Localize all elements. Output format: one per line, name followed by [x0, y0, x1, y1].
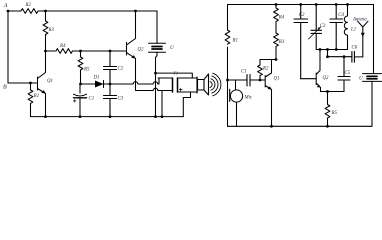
svg-text:R1: R1 [33, 94, 39, 99]
node rail battery [154, 115, 157, 118]
wire left edge A to B [7, 11, 9, 83]
capacitor C1 right [247, 75, 250, 87]
node rail T1 tap [161, 115, 164, 118]
svg-text:Mic: Mic [244, 96, 253, 101]
wire rail corner to speaker bottom [183, 92, 197, 117]
svg-text:R2: R2 [25, 3, 32, 8]
antenna [358, 21, 368, 57]
svg-text:D1: D1 [93, 76, 100, 81]
svg-text:C2: C2 [299, 13, 305, 18]
svg-text:R5: R5 [83, 68, 90, 73]
svg-text:Antena: Antena [352, 18, 367, 23]
svg-text:Q1: Q1 [274, 77, 280, 82]
svg-text:Q1: Q1 [47, 79, 53, 84]
node rail Q1 emitter [44, 115, 47, 118]
diode D1 [81, 81, 111, 88]
wire right edge to battery plus [373, 5, 375, 74]
node C2 top right [299, 3, 302, 6]
transistor Q2 [127, 11, 136, 91]
transformer T1 [173, 78, 178, 92]
svg-text:R2: R2 [262, 67, 269, 72]
wire2 emitter return with hop [136, 88, 173, 90]
wire emitter row [321, 80, 345, 92]
node battery minus junction [154, 72, 157, 75]
resistor R1 right [225, 30, 230, 44]
speaker LS [196, 77, 198, 93]
svg-text:C4: C4 [338, 13, 344, 18]
node R2 bottom [259, 79, 262, 82]
svg-text:U: U [170, 45, 175, 51]
svg-text:B: B [3, 84, 7, 90]
svg-text:R4: R4 [59, 44, 66, 49]
node C4 bottom [335, 48, 338, 51]
capacitor C6 [352, 52, 355, 63]
resistor R4 right [274, 5, 279, 34]
node lower row left [326, 48, 329, 51]
svg-text:C2: C2 [118, 67, 124, 72]
wire battery minus to speaker [156, 73, 198, 78]
wire C2 to Q2 base [301, 78, 317, 80]
node R5 top right [326, 90, 329, 93]
wire upper tank row [316, 49, 347, 51]
node C5 top [343, 55, 346, 58]
svg-text:C1: C1 [89, 97, 95, 102]
capacitor C4 [330, 5, 343, 50]
wire top rail right circuit [228, 4, 374, 6]
battery U right [363, 74, 382, 82]
svg-text:C3: C3 [118, 97, 124, 102]
wire tap to rail [161, 91, 163, 117]
resistor R2 right [258, 60, 263, 81]
inductor L1 [344, 5, 347, 50]
node D1 left junction [79, 83, 82, 86]
svg-text:C5: C5 [345, 71, 351, 76]
node R4 right junction [79, 50, 82, 53]
svg-text:A: A [3, 3, 8, 9]
svg-text:Q2: Q2 [138, 48, 145, 53]
wire node B row [8, 82, 38, 84]
resistor R3 right [274, 33, 279, 60]
wire bottom rail right circuit [228, 125, 373, 127]
node junction top Q2 collector [134, 10, 137, 13]
wire bottom rail left circuit [31, 116, 184, 118]
node A [7, 10, 10, 13]
svg-text:C1: C1 [241, 70, 247, 75]
node R3 bottom junction right [275, 58, 278, 61]
node C3 top junction [109, 83, 112, 86]
svg-text:R1: R1 [232, 39, 238, 44]
node junction top R3 [44, 10, 47, 13]
wire left edge right circuit [227, 5, 229, 127]
wire lower tank row [328, 50, 353, 57]
resistor R5 right [325, 92, 330, 127]
node L1 top [346, 3, 349, 6]
node rail Q1 emitter right [270, 125, 273, 128]
svg-text:L1: L1 [350, 28, 356, 33]
capacitor C5 [338, 57, 350, 80]
resistor R5 [78, 51, 83, 84]
wire R2 top row [260, 59, 276, 61]
node C2 top junction [109, 50, 112, 53]
resistor R4 [56, 49, 72, 54]
resistor R1 [28, 83, 33, 117]
svg-text:R4: R4 [278, 16, 285, 21]
node C3 top right [315, 3, 318, 6]
capacitor C3 [104, 84, 117, 117]
svg-text:T1: T1 [173, 71, 178, 76]
transistor Q1 right [265, 60, 271, 127]
node R4 top [275, 3, 278, 6]
node rail R5 right [326, 125, 329, 128]
svg-text:R5: R5 [331, 111, 338, 116]
wire mic row [228, 79, 247, 81]
node rail C1 [79, 115, 82, 118]
node mic row left [226, 79, 229, 82]
capacitor C3 variable [311, 5, 322, 50]
wire1 diode row to T1 with hops [110, 78, 173, 84]
node tank collector top [319, 48, 322, 51]
transistor Q2 right [316, 50, 320, 92]
transistor Q1 [38, 51, 46, 117]
capacitor C1 electrolytic [79, 84, 81, 93]
node rail C3 [109, 115, 112, 118]
svg-text:C3: C3 [320, 24, 326, 29]
capacitor C2 right [294, 5, 308, 79]
resistor R2 [21, 9, 38, 14]
capacitor C2 [104, 51, 117, 84]
battery U left [156, 11, 158, 43]
svg-text:C6: C6 [352, 46, 358, 51]
svg-text:Q2: Q2 [323, 76, 330, 81]
node R1 top [29, 82, 32, 85]
svg-text:R3: R3 [278, 40, 285, 45]
node C4 top [335, 3, 338, 6]
svg-text:R3: R3 [48, 28, 55, 33]
wire top rail left circuit [8, 10, 157, 12]
microphone Mic [235, 80, 237, 90]
wire battery lead to rail [155, 73, 157, 117]
node R3 bottom [44, 50, 47, 53]
resistor R3 [43, 11, 48, 51]
wire base row Q2 [46, 50, 127, 52]
svg-text:U: U [359, 76, 364, 82]
